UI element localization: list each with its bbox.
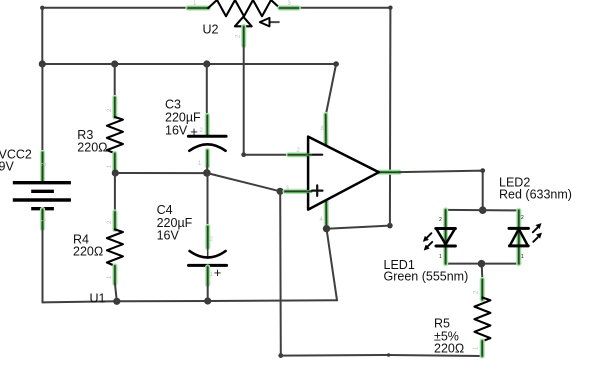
wire diagonal rail to pin4 node	[327, 229, 338, 301]
node endpoint top-left corner	[40, 6, 44, 10]
battery VCC2 pin top green	[40, 153, 45, 182]
LED1 symbol triangle sides	[436, 229, 454, 244]
svg-text:U1: U1	[90, 292, 106, 306]
op-amp U1 plus symbol	[312, 185, 323, 196]
op-amp U1 pin4 green	[324, 200, 329, 230]
wire top rail right segment	[297, 7, 390, 9]
wire C3 bottom lead	[206, 165, 209, 173]
svg-text:U2: U2	[203, 23, 219, 37]
svg-text:Red (633nm): Red (633nm)	[499, 188, 572, 202]
node bendpoint wiper corner	[241, 152, 246, 157]
svg-text:Green (555nm): Green (555nm)	[384, 270, 469, 284]
node junction battery/rail	[39, 60, 46, 67]
wire op-amp output to LED pair	[399, 171, 483, 211]
node junction R4 bottom	[113, 298, 120, 305]
svg-text:4: 4	[320, 217, 324, 223]
node junction op-amp +input	[277, 188, 284, 195]
LED1 emission arrows	[427, 233, 431, 237]
capacitor C3 pin green bottom	[205, 151, 210, 167]
svg-text:220Ω: 220Ω	[73, 245, 103, 259]
potentiometer U2 pin1 green	[188, 5, 208, 10]
wire to op-amp pin2	[244, 154, 308, 156]
LED2 cathode bar	[509, 227, 528, 230]
svg-text:+: +	[190, 124, 198, 139]
op-amp U1 pin3 green stub inside	[308, 190, 311, 193]
svg-text:+: +	[214, 265, 222, 280]
LED2 symbol triangle sides	[510, 229, 528, 245]
potentiometer U2 wiper triangle	[235, 17, 252, 27]
capacitor C4 pin green top	[205, 227, 210, 248]
wire pin4 node to right	[327, 226, 390, 229]
svg-text:C3: C3	[165, 98, 181, 112]
resistor R3 pin 1 green	[112, 153, 117, 171]
resistor R5 pin 2 green	[480, 280, 485, 300]
svg-text:R5: R5	[434, 316, 450, 330]
svg-text:220Ω: 220Ω	[77, 140, 107, 154]
resistor R4 pin 1 green	[112, 266, 117, 284]
svg-text:2: 2	[200, 128, 204, 134]
wire +input stub	[280, 190, 308, 192]
node junction LED top rail	[479, 206, 487, 214]
wire left vertical from top corner	[41, 8, 43, 64]
svg-text:2: 2	[107, 108, 113, 112]
wire top rail left segment	[42, 7, 190, 9]
capacitor C3 pin green top	[205, 116, 210, 136]
node bendpoint output corner	[480, 168, 485, 173]
op-amp U1 pin2 green stub inside	[308, 153, 311, 156]
wire LED bottom to R5	[481, 264, 484, 281]
resistor R4 bottom lead	[115, 283, 117, 301]
node junction C4 bottom	[204, 297, 211, 304]
wire diagonal C3 node to +input node	[207, 173, 280, 191]
op-amp U1 pin8 green	[323, 115, 328, 147]
node junction R3 bottom	[112, 169, 119, 176]
svg-text:1: 1	[521, 254, 524, 260]
svg-text:9V: 9V	[0, 160, 14, 174]
svg-text:16V: 16V	[157, 228, 180, 242]
capacitor C4 inner lead	[207, 247, 209, 257]
wire LED top rail	[446, 209, 519, 212]
potentiometer U2 pin3 green	[280, 5, 299, 10]
potentiometer U2 zigzag	[208, 0, 280, 16]
op-amp U1 pin3 green	[285, 189, 310, 194]
wire bottom rail	[281, 355, 483, 356]
LED1 symbol base bar	[436, 227, 456, 230]
op-amp U1 output pin green	[379, 170, 399, 175]
op-amp U1 pin2 green	[289, 152, 310, 157]
resistor R5 pin 1 green	[480, 341, 485, 356]
resistor R4 pin 2 green	[112, 212, 117, 230]
capacitor C3 top lead	[206, 64, 208, 117]
wire battery bottom to rail	[42, 228, 44, 302]
wire bottom-left rail (battery- / R4 / C4 / pin4)	[43, 300, 338, 302]
wire right vertical to top rail	[389, 8, 392, 226]
LED1 lead green	[443, 210, 448, 264]
resistor R5 zigzag	[474, 298, 490, 342]
capacitor C3 curved plate	[189, 144, 225, 151]
node junction C3 bottom	[203, 169, 211, 177]
svg-text:220µF: 220µF	[165, 111, 201, 125]
resistor R4 top lead	[114, 173, 116, 213]
node bendpoint right vertical	[387, 223, 393, 229]
capacitor C4 flat plate	[189, 264, 227, 267]
LED2 lead green	[516, 210, 521, 263]
capacitor C3 flat plate	[188, 135, 226, 138]
wire diagonal to op-amp pin8	[326, 64, 336, 116]
wire mid rail y64	[42, 63, 336, 65]
node junction R3 top	[111, 60, 118, 67]
wire R3-C3 rail	[115, 172, 207, 174]
svg-text:2: 2	[439, 217, 442, 223]
resistor R3 pin 2 green	[112, 98, 117, 118]
wire LED bottom rail	[446, 263, 519, 265]
resistor R4 zigzag	[107, 229, 123, 266]
svg-text:1: 1	[107, 275, 113, 279]
LED1 cathode bar	[436, 245, 455, 248]
svg-text:1: 1	[474, 346, 480, 350]
capacitor C4 curved plate	[190, 251, 226, 258]
LED2 symbol base bar	[509, 244, 528, 247]
wire U2 wiper down	[243, 45, 245, 155]
svg-text:220Ω: 220Ω	[434, 341, 464, 355]
svg-text:2: 2	[474, 290, 480, 294]
potentiometer U2 wiper pin green	[241, 27, 246, 46]
node junction op-amp pin4	[323, 225, 330, 232]
svg-text:2: 2	[210, 237, 214, 243]
svg-text:2: 2	[521, 215, 524, 221]
capacitor C4 top lead	[207, 173, 209, 228]
wire battery top lead	[41, 64, 43, 154]
op-amp U1 minus symbol	[313, 154, 322, 156]
resistor R3 zigzag	[107, 117, 123, 153]
svg-text:2: 2	[107, 220, 113, 224]
node endpoint top-right corner	[388, 6, 392, 10]
capacitor C4 bottom lead	[207, 284, 209, 301]
node junction C3 top	[203, 60, 210, 67]
LED2 emission arrows	[533, 228, 537, 232]
node junction LED bottom rail	[478, 260, 486, 268]
node corner bottom rail	[278, 353, 283, 358]
battery VCC2 pin bottom green	[40, 210, 45, 229]
wire +node vertical down	[279, 191, 282, 355]
resistor R3 top lead	[114, 64, 116, 99]
svg-text:2: 2	[236, 34, 242, 38]
potentiometer U2 arrow	[269, 21, 278, 23]
svg-text:1: 1	[439, 254, 442, 260]
capacitor C4 pin green bottom	[205, 267, 210, 285]
node bendpoint rail to pin8 diagonal	[333, 61, 339, 67]
svg-text:1: 1	[107, 164, 113, 168]
svg-text:1: 1	[198, 161, 202, 167]
node junction op-amp pin4 (over green)	[323, 225, 330, 232]
svg-text:16V: 16V	[165, 124, 188, 138]
node bendpoint bottom rail	[387, 353, 391, 357]
battery VCC2 plates	[13, 183, 71, 209]
op-amp U1 triangle	[308, 137, 379, 210]
